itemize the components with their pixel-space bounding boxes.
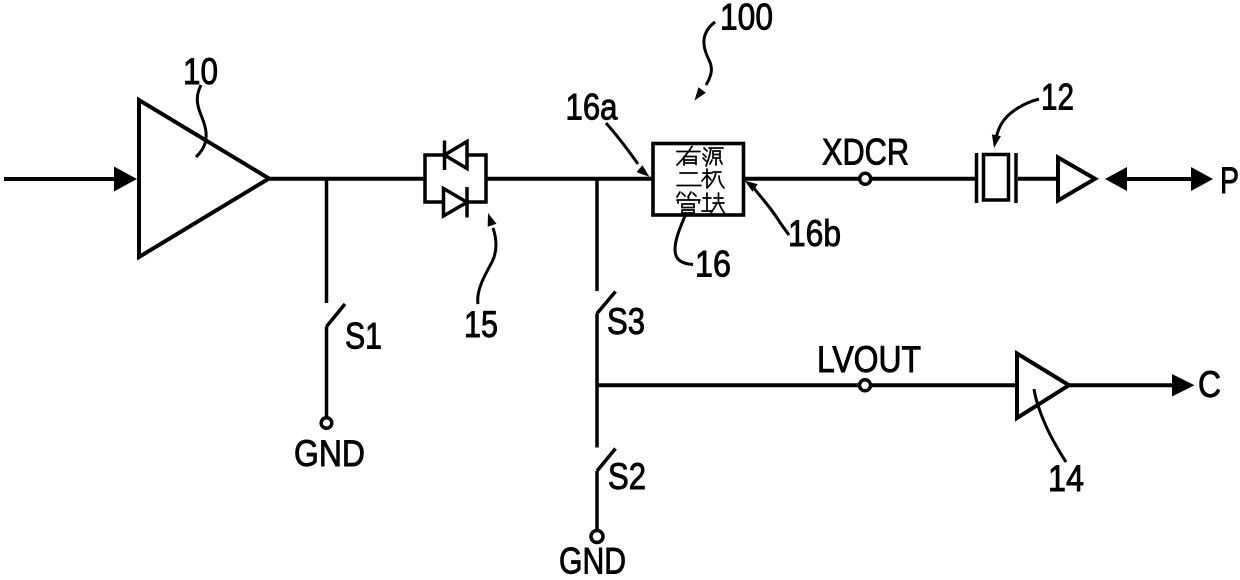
diode D-lower triangle (444, 189, 468, 217)
svg-text:14: 14 (1048, 458, 1084, 499)
char Yuan (source) (703, 148, 723, 166)
op-amp 14 (1017, 354, 1069, 419)
arrowhead of 15 leader (488, 213, 497, 227)
leader line for label 100 (704, 22, 715, 85)
ground terminal circle (bottom) (591, 531, 603, 543)
leader line for label 10 (196, 85, 206, 157)
node XDCR (860, 173, 871, 184)
char Kuai (block) (702, 193, 725, 213)
wire S3 branch upper (595, 177, 599, 291)
svg-text:100: 100 (720, 0, 773, 38)
wire S1 lower (325, 327, 329, 418)
wire S3 to S2 via LVOUT junction (595, 314, 599, 448)
node LVOUT (860, 380, 871, 391)
svg-text:GND: GND (559, 541, 626, 580)
buffer amp (right of crystal) (1058, 158, 1095, 201)
switch S1 blade (327, 304, 346, 327)
wire crystal to buffer (1018, 177, 1058, 181)
svg-text:XDCR: XDCR (822, 132, 909, 173)
leader line for label 12 (996, 99, 1040, 141)
right arrowhead of P arrow (1191, 167, 1213, 191)
wire box 16 to crystal (744, 177, 975, 181)
input wire (4, 177, 118, 181)
svg-text:S2: S2 (608, 456, 646, 497)
crystal 12 left plate (975, 153, 979, 203)
diode D-upper triangle (445, 142, 468, 169)
svg-text:12: 12 (1041, 77, 1074, 118)
arrowhead of 12 leader (992, 134, 1001, 148)
leader line for label 16 (675, 216, 693, 265)
char Er (two) (677, 173, 701, 186)
svg-text:15: 15 (464, 304, 498, 345)
arrowhead C (1172, 374, 1195, 397)
crystal 12 right plate (1014, 153, 1018, 203)
arrowhead of 100 leader (695, 87, 706, 100)
svg-text:10: 10 (183, 51, 218, 92)
input arrowhead (114, 167, 137, 192)
svg-text:C: C (1198, 364, 1221, 405)
leader line for label 16a (606, 123, 638, 164)
chinese text in box 16: 有源 / 二极 / 管块 (677, 147, 725, 214)
svg-text:GND: GND (294, 433, 365, 474)
arrowhead of 16a leader (637, 165, 650, 177)
wire diode block to box 16 (486, 177, 653, 181)
svg-text:S1: S1 (345, 316, 382, 357)
leader line for label 16b (753, 187, 789, 235)
ground terminal circle (left) (321, 418, 332, 429)
leader line for label 14 (1034, 389, 1066, 462)
svg-text:16b: 16b (788, 213, 841, 254)
active diode block box 16 (653, 144, 744, 216)
char You (have) (677, 147, 700, 166)
leader lines and arrowheads (196, 22, 1066, 462)
wire LVOUT (597, 383, 1017, 387)
leader line for label 15 (478, 228, 496, 304)
svg-text:16a: 16a (566, 87, 618, 128)
wire S1 branch upper (325, 177, 329, 303)
diode D-lower cathode bar (465, 187, 469, 218)
bidirectional arrow shaft P (1122, 177, 1196, 181)
diode D-upper cathode bar (443, 141, 447, 171)
char Ji (pole) (702, 169, 724, 188)
wire amp 14 to C (1069, 383, 1178, 387)
svg-text:P: P (1220, 160, 1239, 201)
wire S2 lower (595, 471, 599, 531)
switch S2 blade (597, 449, 616, 472)
char Guan (tube) (677, 192, 700, 213)
arrowhead of 16b leader (745, 181, 758, 192)
left arrowhead of P arrow (1105, 167, 1127, 191)
crystal 12 body (984, 155, 1009, 201)
switch S3 blade (597, 292, 616, 314)
op-amp U10 (139, 100, 269, 257)
svg-text:LVOUT: LVOUT (817, 339, 921, 380)
svg-text:S3: S3 (607, 301, 645, 342)
svg-text:16: 16 (695, 244, 731, 285)
diode pair 15 frame (425, 155, 486, 202)
wire amp output to diode block (267, 177, 425, 181)
